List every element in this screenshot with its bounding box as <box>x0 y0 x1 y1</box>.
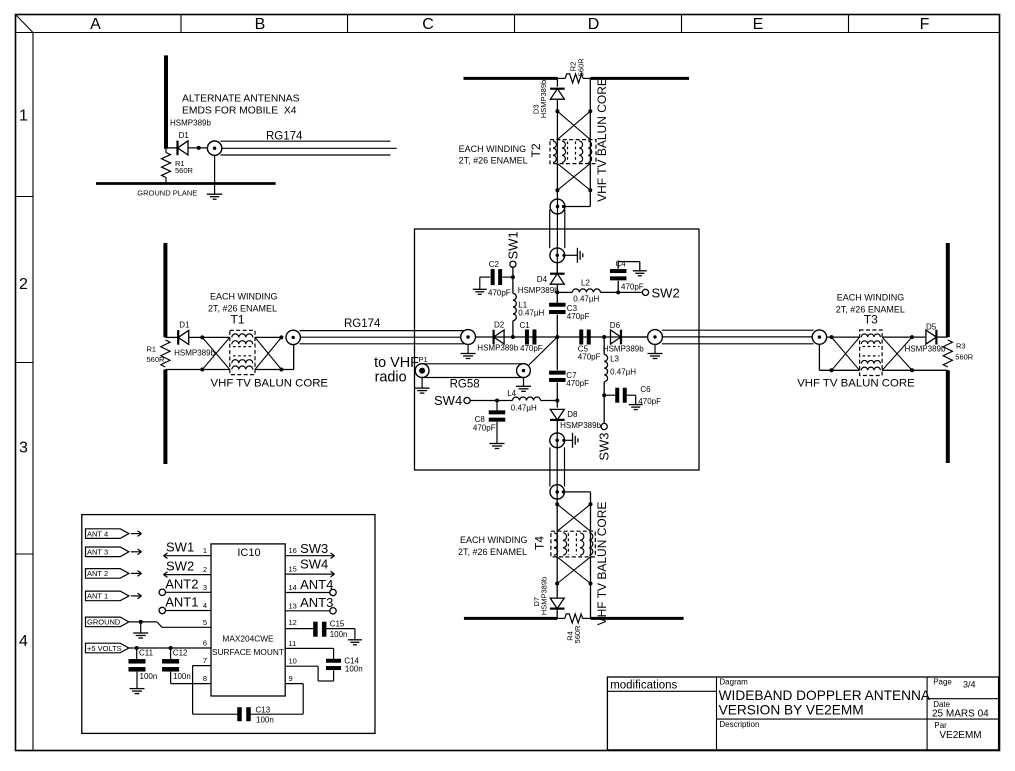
node C6 junction <box>602 393 606 397</box>
pin number 3 <box>203 583 207 592</box>
svg-text:560R: 560R <box>175 166 194 175</box>
svg-text:7: 7 <box>203 656 207 665</box>
pin 4 wire (ANT1) <box>166 610 212 612</box>
wires right of T1 <box>255 337 294 369</box>
svg-text:HSMP389b: HSMP389b <box>170 118 211 127</box>
label P1 <box>419 355 428 364</box>
svg-text:12: 12 <box>289 618 297 627</box>
junction dots above T4 <box>555 502 592 506</box>
pin number 6 <box>203 639 207 648</box>
title VERSION BY VE2EMM <box>719 703 864 718</box>
inductor L3 0.47uH <box>604 355 607 382</box>
pin 15 wire (SW4) <box>285 571 334 577</box>
svg-text:RG174: RG174 <box>266 131 303 143</box>
svg-text:HSMP389b: HSMP389b <box>905 345 946 354</box>
svg-text:560R: 560R <box>573 625 582 644</box>
svg-text:R3: R3 <box>956 341 966 350</box>
svg-text:C4: C4 <box>616 260 627 269</box>
text EACH WINDING (T1) <box>208 291 278 313</box>
wire C8 to ground <box>496 422 498 444</box>
antenna top (north) <box>464 77 690 80</box>
svg-text:D5: D5 <box>926 322 937 331</box>
svg-text:SW2: SW2 <box>652 285 680 300</box>
svg-text:C8: C8 <box>475 415 486 424</box>
wire D6 to right connector <box>621 336 648 338</box>
wire top connector to D4 <box>556 263 558 274</box>
svg-text:HSMP389b: HSMP389b <box>540 577 549 615</box>
inductor L2 0.47uH <box>572 289 600 292</box>
svg-text:F: F <box>920 16 930 33</box>
ground (bottom connector) <box>565 433 578 448</box>
pin 13 wire (ANT3) <box>285 610 330 612</box>
svg-text:470pF: 470pF <box>578 352 601 361</box>
wire D4 to node <box>556 285 558 304</box>
svg-text:8: 8 <box>203 674 207 683</box>
pin number 14 <box>289 583 297 592</box>
right rail T2 <box>589 78 591 163</box>
title block frame <box>607 677 998 750</box>
svg-text:ANT2: ANT2 <box>165 577 198 592</box>
label C1 <box>520 321 531 330</box>
svg-text:R1: R1 <box>147 344 157 353</box>
svg-text:GROUND PLANE: GROUND PLANE <box>137 188 197 197</box>
connector (top, inside box) <box>550 248 566 274</box>
label ANT1 (IC) <box>165 594 198 609</box>
label R3 <box>955 341 974 361</box>
label ANT4 (IC) <box>300 577 333 592</box>
wire L2 to SW2 <box>600 291 642 293</box>
pin 11 wire <box>285 648 333 659</box>
right rail T4 upper <box>590 492 592 557</box>
pin number 8 <box>203 674 207 683</box>
label 3/4 <box>963 680 976 690</box>
svg-text:560R: 560R <box>955 353 974 362</box>
terminal SW1 <box>510 261 516 267</box>
pin number 13 <box>289 601 297 610</box>
svg-text:2: 2 <box>203 565 207 574</box>
wire C8 top <box>496 401 498 411</box>
svg-text:C1: C1 <box>520 321 531 330</box>
svg-text:D: D <box>588 16 600 33</box>
wire C6 to ground <box>627 395 636 404</box>
wire L3 to C6 node <box>603 382 605 396</box>
svg-text:ALTERNATE ANTENNAS: ALTERNATE ANTENNAS <box>182 93 300 104</box>
label HSMP389b (D8) <box>560 421 601 430</box>
text EACH WINDING (T4) <box>458 535 528 557</box>
svg-text:HSMP389b: HSMP389b <box>518 286 559 295</box>
junction dots right of T1 <box>279 335 283 371</box>
label ANT3 (IC) <box>300 595 333 610</box>
node C8 junction <box>495 399 499 403</box>
svg-text:L2: L2 <box>581 278 590 287</box>
pin number 9 <box>289 674 293 683</box>
svg-text:SW4: SW4 <box>300 557 328 572</box>
wires left of T3 <box>819 337 859 370</box>
wire C6 left <box>604 394 615 396</box>
label HSMP389b (D6) <box>603 345 644 354</box>
label R1 (alternate) <box>175 159 194 175</box>
wire D1 to T1 <box>189 336 230 338</box>
diode D7 HSMP389b (bottom arm) <box>550 598 565 609</box>
node SW2 branch junction <box>555 290 559 294</box>
svg-text:2T, #26 ENAMEL: 2T, #26 ENAMEL <box>459 156 528 166</box>
svg-text:VERSION BY VE2EMM: VERSION BY VE2EMM <box>719 703 864 718</box>
wire to T1 connector <box>293 345 295 370</box>
pin number 4 <box>203 601 207 610</box>
svg-text:2: 2 <box>19 276 28 293</box>
svg-text:C: C <box>422 16 434 33</box>
arrow (ANT 1) <box>131 593 142 599</box>
terminal SW4 <box>464 397 470 403</box>
svg-text:2T, #26 ENAMEL: 2T, #26 ENAMEL <box>458 547 527 557</box>
svg-text:1: 1 <box>203 546 207 555</box>
frame row labels 1-4 <box>19 108 28 651</box>
label D7 (rotated) <box>532 597 541 607</box>
pin 1 wire (SW1) <box>164 553 212 559</box>
label MAX204CWE <box>222 634 274 644</box>
capacitor C8 470pF <box>489 410 506 421</box>
pin number 7 <box>203 656 207 665</box>
pin 2 wire (SW2) <box>164 572 212 578</box>
junction dots above T2 <box>555 109 592 113</box>
label L4 <box>507 389 537 412</box>
capacitor C7 470pF <box>549 371 566 382</box>
node junction dot (D1 output) <box>197 146 201 150</box>
svg-text:16: 16 <box>289 546 297 555</box>
label C8 <box>475 415 486 424</box>
label SW1 (IC) <box>166 540 194 555</box>
svg-text:L3: L3 <box>610 355 619 364</box>
svg-text:3/4: 3/4 <box>963 680 976 690</box>
label 470pF (C2) <box>488 289 511 298</box>
svg-text:ANT 1: ANT 1 <box>87 592 108 601</box>
capacitor C1 470pF <box>525 330 537 345</box>
label SW3 (rotated) <box>597 433 612 461</box>
label C6 <box>640 385 651 394</box>
label D1 (alternate) <box>179 131 190 140</box>
svg-text:C2: C2 <box>489 260 500 269</box>
svg-text:Description: Description <box>719 720 759 729</box>
label VHF TV BALUN CORE (T3) <box>797 378 915 390</box>
pin 14 wire (ANT4) <box>285 592 330 594</box>
label Page <box>933 677 952 686</box>
svg-text:14: 14 <box>289 583 297 592</box>
svg-text:SW1: SW1 <box>505 231 520 259</box>
svg-text:VHF TV BALUN CORE: VHF TV BALUN CORE <box>797 378 915 390</box>
svg-text:RG58: RG58 <box>450 379 480 391</box>
transformer T3 VHF TV balun <box>860 330 883 376</box>
label SW3 (IC) <box>300 541 328 556</box>
connector (right, inside box) <box>648 330 663 345</box>
ground (C4) <box>633 271 647 276</box>
label 470pF (C8) <box>473 424 496 433</box>
text ALTERNATE ANTENNAS <box>182 93 300 116</box>
label 470pF (C1) <box>520 344 543 353</box>
svg-text:D6: D6 <box>610 321 621 330</box>
pin 10 wire <box>285 666 333 681</box>
flag GROUND <box>86 617 129 627</box>
label 470pF (C6) <box>638 397 661 406</box>
label VHF TV BALUN CORE (T2, rotated) <box>595 78 609 202</box>
label T2 (rotated) <box>529 143 543 157</box>
pin number 15 <box>289 565 297 574</box>
cross wires below T2 <box>557 164 590 191</box>
svg-text:0.47µH: 0.47µH <box>573 295 599 304</box>
svg-text:modifications: modifications <box>610 679 677 691</box>
resistor R2 560R (top arm) <box>558 74 591 83</box>
connector P1 to VHF radio <box>415 364 429 378</box>
capacitor C2 470pF <box>491 269 503 285</box>
svg-text:Page: Page <box>933 677 952 686</box>
label C7 <box>566 371 589 388</box>
label R2 (rotated) <box>569 58 586 77</box>
coax RG174 (T1 to center) 3 lines <box>300 331 465 344</box>
svg-text:470pF: 470pF <box>566 379 589 388</box>
pin number 16 <box>289 546 297 555</box>
wire T4 connector to right rail <box>564 491 590 493</box>
label 100n (C13) <box>256 716 274 725</box>
label HSMP389b (D4) <box>518 286 559 295</box>
svg-text:RG174: RG174 <box>344 318 381 330</box>
diode D1 (alternate) HSMP389b <box>178 141 189 156</box>
connector (T2) <box>550 199 565 214</box>
diode D3 HSMP389b (top arm) <box>550 89 565 100</box>
coax T2 to center box 3 lines <box>550 210 565 249</box>
svg-text:EACH WINDING: EACH WINDING <box>210 291 278 301</box>
label C2 <box>489 260 500 269</box>
svg-text:C11: C11 <box>139 648 154 657</box>
svg-text:C15: C15 <box>330 619 345 628</box>
wires right of T3 <box>882 337 948 370</box>
connector (RG58 right) <box>517 364 531 378</box>
label C13 <box>256 706 271 715</box>
label SW4 (IC) <box>300 557 328 572</box>
diode D4 HSMP389b <box>550 274 565 285</box>
svg-text:100n: 100n <box>173 672 191 681</box>
svg-text:VHF TV BALUN CORE: VHF TV BALUN CORE <box>595 502 609 626</box>
svg-text:0.47µH: 0.47µH <box>518 309 544 318</box>
label D6 <box>610 321 621 330</box>
svg-text:EACH WINDING: EACH WINDING <box>460 535 528 545</box>
text EACH WINDING (T2) <box>459 144 528 166</box>
ground (C8) <box>490 444 505 449</box>
svg-text:P1: P1 <box>419 355 428 364</box>
wire GROUND flag to pin 5 <box>129 622 211 627</box>
svg-text:470pF: 470pF <box>638 397 661 406</box>
terminal ANT2 <box>159 589 165 595</box>
ground symbol (alternate connector) <box>207 155 223 199</box>
svg-text:25 MARS 04: 25 MARS 04 <box>932 708 989 719</box>
label RG174 (left arm) <box>344 318 381 330</box>
label HSMP389b (alternate D1) <box>170 118 211 127</box>
ground symbol (GROUND flag) <box>133 622 148 638</box>
flag ANT 3 <box>86 547 129 557</box>
arrow (ANT 2) <box>131 571 142 577</box>
wire C11 top <box>136 648 138 659</box>
svg-text:ANT1: ANT1 <box>165 594 198 609</box>
wire D1 to connector <box>189 147 208 149</box>
wire bottom (left arm) <box>165 369 229 371</box>
node C2 junction <box>511 275 515 279</box>
label L2 <box>573 278 599 303</box>
svg-text:470pF: 470pF <box>488 289 511 298</box>
svg-text:ANT 2: ANT 2 <box>87 569 108 578</box>
wire antenna to diode D1 <box>166 147 178 149</box>
svg-text:470pF: 470pF <box>473 424 496 433</box>
wire L3 branch <box>603 337 605 355</box>
pin number 2 <box>203 565 207 574</box>
frame column separators <box>181 15 849 33</box>
diode D5 HSMP389b (right arm) <box>926 330 937 345</box>
wire C2 to SW1 node <box>503 276 513 278</box>
svg-text:ANT 3: ANT 3 <box>87 548 108 557</box>
svg-text:HSMP389b: HSMP389b <box>539 80 548 118</box>
svg-text:T2: T2 <box>529 143 543 157</box>
cross wires above T2 <box>557 111 590 139</box>
svg-text:2T, #26 ENAMEL: 2T, #26 ENAMEL <box>208 303 277 313</box>
title WIDEBAND DOPPLER ANTENNA <box>719 688 931 703</box>
label VHF TV BALUN CORE (T4, rotated) <box>595 502 609 626</box>
svg-text:100n: 100n <box>256 716 274 725</box>
wire L4 to center line <box>541 400 558 402</box>
svg-text:C13: C13 <box>256 706 271 715</box>
svg-text:WIDEBAND DOPPLER ANTENNA: WIDEBAND DOPPLER ANTENNA <box>719 688 931 703</box>
connector (T4) <box>550 485 565 499</box>
svg-text:D1: D1 <box>179 321 190 330</box>
svg-text:Dagram: Dagram <box>719 677 748 686</box>
node L3 junction on main line <box>602 335 606 339</box>
capacitor C14 100n <box>326 659 341 670</box>
svg-text:3: 3 <box>203 583 207 592</box>
node ground junction <box>139 620 143 624</box>
label ANT2 (IC) <box>165 577 198 592</box>
pin 3 wire (ANT2) <box>166 591 212 593</box>
wire +5V to pin 6 <box>129 647 211 649</box>
svg-text:C6: C6 <box>640 385 651 394</box>
pin number 1 <box>203 546 207 555</box>
cross wires right of T1 <box>255 337 281 369</box>
arrow (ANT 4) <box>131 531 142 537</box>
capacitor C12 100n <box>162 659 179 672</box>
ground (right connector) <box>648 344 663 358</box>
label GROUND PLANE <box>137 188 197 197</box>
flag ANT 1 <box>86 591 129 601</box>
cross wires below T4 <box>557 557 590 584</box>
left rail T2 to transformer <box>556 100 558 164</box>
resistor R1 560R (left arm) <box>161 340 170 367</box>
ground plane line <box>96 182 276 185</box>
label HSMP389b (left arm) <box>174 348 215 357</box>
IC U1 MAX204CWE box <box>211 544 285 696</box>
flag ANT 4 <box>86 529 129 539</box>
svg-text:E: E <box>753 16 764 33</box>
wire L1 to main line <box>512 321 514 337</box>
capacitor C6 470pF <box>615 388 627 403</box>
label 100n (C11) <box>140 672 158 681</box>
antenna left (west) <box>163 243 167 464</box>
frame column labels A-F <box>90 16 929 33</box>
label SW1 (rotated) <box>505 231 520 259</box>
pin number 12 <box>289 618 297 627</box>
cross wires left of T1 <box>202 337 230 369</box>
label Par <box>934 721 947 730</box>
pin 7 wire <box>193 666 238 715</box>
label 470pF (C4) <box>621 283 644 292</box>
wire C4 to ground <box>618 262 640 271</box>
label C3 <box>567 304 590 321</box>
svg-text:ANT3: ANT3 <box>300 595 333 610</box>
diode D2 HSMP389b <box>494 330 505 345</box>
capacitor C3 470pF <box>549 303 566 314</box>
label L1 <box>518 300 544 317</box>
inductor L1 0.47uH <box>513 293 516 320</box>
pin number 10 <box>289 657 297 666</box>
terminal ANT1 <box>159 607 165 613</box>
capacitor C11 100n <box>129 659 146 672</box>
label C4 <box>616 260 627 269</box>
junction dots left of T3 <box>830 335 834 372</box>
wire D5 to antenna <box>936 336 947 338</box>
label T3 <box>864 313 878 327</box>
svg-text:6: 6 <box>203 639 207 648</box>
wire C2 left to ground <box>480 277 491 289</box>
arrow (ANT 3) <box>131 549 142 555</box>
terminal ANT4 <box>330 589 336 595</box>
label HSMP389b (D3, rotated) <box>539 80 548 118</box>
label SW2 (IC) <box>166 558 194 573</box>
wire C11 to ground <box>136 672 138 689</box>
svg-text:470pF: 470pF <box>621 283 644 292</box>
wire C15 to ground <box>326 629 355 640</box>
svg-text:100n: 100n <box>345 664 363 673</box>
svg-text:SW4: SW4 <box>434 393 462 408</box>
wire D8 to bottom connector <box>556 420 558 433</box>
junction dots left of T1 <box>200 335 204 371</box>
wire C12 to pin 8 <box>171 672 211 684</box>
svg-text:T4: T4 <box>533 536 547 550</box>
left rail T2 upper <box>556 78 558 86</box>
resistor R3 560R (right arm) <box>943 340 952 367</box>
svg-text:EACH WINDING: EACH WINDING <box>459 144 526 154</box>
coax RG58 tube <box>422 364 523 378</box>
terminal SW2 <box>642 289 648 295</box>
connector (left, inside box) <box>461 330 476 345</box>
connector (T3 to RG174) <box>812 330 826 344</box>
label SURFACE MOUNT <box>212 647 284 657</box>
svg-text:0.47µH: 0.47µH <box>610 367 636 376</box>
svg-text:T1: T1 <box>230 313 244 327</box>
node L4/D8 junction <box>555 399 559 403</box>
wire C12 top <box>170 648 172 659</box>
node L1 junction on main line <box>511 335 515 339</box>
diode D8 HSMP389b <box>550 409 565 420</box>
antenna right (east) <box>946 243 950 463</box>
label Dagram <box>719 677 748 686</box>
capacitor C4 470pF <box>610 269 627 280</box>
label 100n (C14) <box>345 664 363 673</box>
svg-text:HSMP389b: HSMP389b <box>560 421 601 430</box>
svg-text:C12: C12 <box>173 648 188 657</box>
svg-text:0.47µH: 0.47µH <box>511 403 537 412</box>
junction dots below T4 <box>555 582 592 586</box>
svg-text:4: 4 <box>203 601 207 610</box>
label modifications <box>610 679 677 691</box>
label R1 (left arm) <box>147 344 166 364</box>
label RG58 <box>450 379 480 391</box>
svg-text:HSMP389b: HSMP389b <box>174 348 215 357</box>
svg-text:Par: Par <box>934 721 947 730</box>
svg-text:IC10: IC10 <box>237 547 260 559</box>
